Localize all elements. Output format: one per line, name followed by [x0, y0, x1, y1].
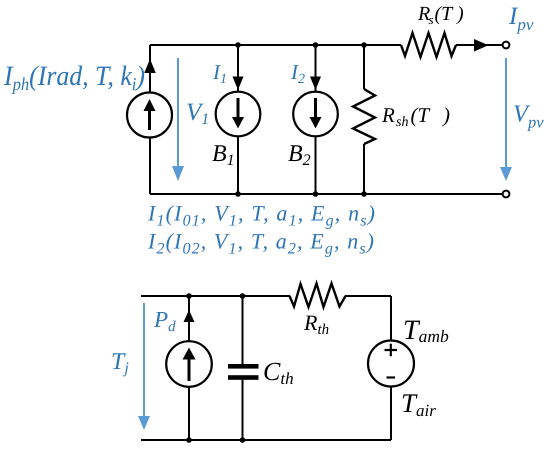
right branch wire lower	[390, 387, 392, 441]
node dot Pd top	[186, 293, 192, 299]
Vpv arrow	[505, 58, 507, 168]
Cth branch wire lower	[242, 380, 244, 440]
svg-text:B1: B1	[212, 141, 235, 169]
Ipv current arrow	[474, 39, 489, 52]
svg-text:Iph(Irad, T, ki): Iph(Irad, T, ki)	[3, 61, 145, 94]
terminal node top right	[503, 42, 510, 49]
svg-text:V1: V1	[186, 99, 209, 128]
current source Iph	[127, 93, 172, 138]
node dot bottom I1	[235, 191, 241, 197]
Pd branch wire upper	[188, 296, 190, 341]
Pd branch wire lower	[188, 387, 190, 440]
voltage source Tamb	[368, 341, 414, 387]
resistor Rs(T)	[401, 33, 456, 57]
bottom circuit top wire left segment	[141, 295, 290, 297]
current source B2	[293, 92, 338, 137]
svg-text:Ipv: Ipv	[508, 3, 534, 34]
Tj arrow	[143, 303, 145, 417]
svg-text:I1: I1	[212, 60, 227, 87]
top wire left segment	[150, 44, 401, 46]
svg-text:Vpv: Vpv	[513, 101, 544, 132]
terminal node bottom right	[503, 191, 510, 198]
node dot Pd bottom	[186, 437, 192, 443]
node dot top I2	[313, 42, 319, 48]
resistor Rth	[290, 284, 346, 308]
current source Pd	[166, 341, 212, 387]
Cth branch wire upper	[242, 296, 244, 364]
Rsh branch wire lower	[363, 144, 365, 194]
V1 arrow	[177, 58, 179, 167]
capacitor Cth	[228, 364, 259, 369]
svg-text:I1(I01, V1, T, a1, Eg, ns): I1(I01, V1, T, a1, Eg, ns)	[147, 201, 375, 230]
I1 branch wire upper	[237, 45, 239, 91]
left branch wire lower	[149, 138, 151, 195]
current source B1	[216, 92, 261, 137]
left branch wire upper	[149, 45, 151, 92]
Iph current arrow up	[144, 59, 156, 73]
I1 current arrow down	[233, 77, 244, 91]
svg-text:B2: B2	[288, 141, 311, 169]
node dot top Rsh	[361, 42, 367, 48]
bottom circuit bottom wire	[141, 439, 391, 441]
I1 branch wire lower	[237, 137, 239, 195]
Pd current arrow up	[184, 310, 195, 322]
right branch wire upper	[390, 296, 392, 341]
node dot bottom I2	[313, 191, 319, 197]
top wire right segment to terminal	[456, 44, 502, 46]
resistor Rsh(T)	[353, 89, 375, 144]
I2 current arrow down	[310, 77, 321, 91]
svg-text:Tair: Tair	[401, 388, 436, 420]
svg-text:Pd: Pd	[153, 307, 176, 335]
svg-text:Rs(T): Rs(T)	[417, 3, 464, 27]
svg-text:Rsh(T): Rsh(T)	[381, 103, 450, 130]
svg-text:Tj: Tj	[111, 349, 129, 377]
svg-text:Tamb: Tamb	[403, 315, 449, 346]
svg-text:Rth: Rth	[303, 310, 329, 338]
bottom circuit top wire right segment	[345, 295, 391, 297]
bottom wire of top circuit	[150, 193, 502, 195]
svg-text:I2: I2	[290, 60, 305, 87]
node dot Cth bottom	[240, 437, 246, 443]
svg-text:Cth: Cth	[263, 357, 294, 388]
svg-text:I2(I02, V1, T, a2, Eg, ns): I2(I02, V1, T, a2, Eg, ns)	[147, 229, 374, 258]
I2 branch wire upper	[315, 45, 317, 91]
node dot top I1	[235, 42, 241, 48]
I2 branch wire lower	[315, 137, 317, 195]
node dot Cth top	[240, 293, 246, 299]
node dot bottom Rsh	[361, 191, 367, 197]
Rsh branch wire upper	[363, 45, 365, 89]
